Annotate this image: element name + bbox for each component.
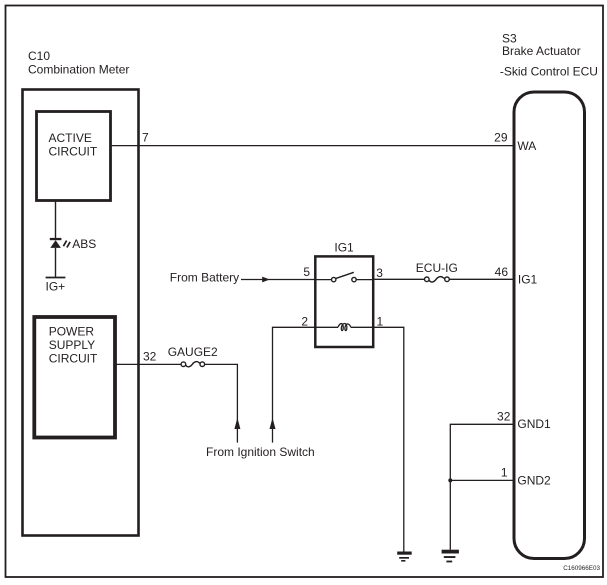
skid control ECU connector S3 (514, 92, 585, 559)
svg-text:C160966E03: C160966E03 (563, 565, 600, 572)
terminal IG+ (46, 277, 66, 279)
svg-text:IG1: IG1 (334, 240, 354, 254)
wire GND1 to node (450, 424, 513, 549)
svg-text:5: 5 (303, 265, 310, 279)
svg-text:46: 46 (495, 265, 509, 279)
relay switch contact (315, 272, 373, 282)
svg-text:GAUGE2: GAUGE2 (168, 345, 218, 359)
label S3 Brake Actuator -Skid Control ECU (500, 32, 598, 79)
svg-text:WA: WA (517, 139, 536, 153)
svg-text:POWER: POWER (49, 325, 95, 339)
arrow from ignition switch (left) (234, 418, 240, 429)
svg-text:ACTIVE: ACTIVE (49, 131, 92, 145)
svg-text:32: 32 (497, 409, 511, 423)
wire diode to IG+ (55, 248, 57, 278)
arrow from ignition switch (right) (270, 418, 276, 429)
svg-text:SUPPLY: SUPPLY (49, 338, 95, 352)
wire active circuit to diode (55, 201, 57, 239)
svg-text:CIRCUIT: CIRCUIT (49, 352, 98, 366)
svg-text:1: 1 (377, 315, 384, 329)
svg-text:ABS: ABS (72, 237, 96, 251)
wire from battery to relay pin5 (241, 279, 315, 281)
svg-text:2: 2 (301, 315, 308, 329)
svg-text:1: 1 (501, 465, 508, 479)
svg-text:GND2: GND2 (517, 474, 551, 488)
svg-text:From Battery: From Battery (170, 270, 239, 284)
svg-text:CIRCUIT: CIRCUIT (49, 144, 98, 158)
svg-text:GND1: GND1 (517, 417, 551, 431)
svg-text:Combination Meter: Combination Meter (28, 63, 129, 77)
svg-text:IG+: IG+ (46, 280, 66, 294)
fuse GAUGE2 (181, 362, 205, 367)
svg-text:IG1: IG1 (518, 273, 538, 287)
svg-text:ECU-IG: ECU-IG (416, 261, 458, 275)
ground (relay pin1) (397, 552, 412, 562)
relay coil (315, 323, 373, 330)
fuse ECU-IG (425, 277, 450, 282)
combination meter box C10 (23, 90, 139, 536)
svg-text:32: 32 (143, 350, 157, 364)
wire pin32 to GAUGE2 fuse (115, 363, 181, 365)
svg-text:-Skid Control ECU: -Skid Control ECU (500, 65, 598, 79)
ground (GND1/GND2) (442, 550, 459, 563)
svg-text:Brake Actuator: Brake Actuator (502, 44, 581, 58)
svg-text:3: 3 (376, 266, 383, 280)
relay IG1 (315, 240, 373, 347)
wire relay pin1 to ground (373, 327, 404, 551)
arrow from battery (262, 277, 270, 283)
svg-text:29: 29 (494, 131, 508, 145)
wire ECU-IG fuse to pin 46 (449, 278, 513, 280)
wire relay pin3 to ECU-IG fuse (373, 278, 424, 280)
wire relay pin2 to ignition switch drop (273, 327, 316, 442)
wire GAUGE2 fuse to ignition switch drop (205, 364, 238, 442)
LED diode ABS (50, 238, 70, 248)
label C10 Combination Meter (28, 49, 129, 77)
power supply circuit block (34, 317, 115, 438)
svg-text:C10: C10 (28, 49, 50, 63)
active circuit block (37, 112, 111, 201)
wire pin7 to WA (111, 145, 514, 147)
junction node (448, 478, 452, 482)
svg-text:From Ignition Switch: From Ignition Switch (206, 445, 315, 459)
svg-text:7: 7 (142, 131, 149, 145)
wire GND2 (450, 479, 513, 481)
